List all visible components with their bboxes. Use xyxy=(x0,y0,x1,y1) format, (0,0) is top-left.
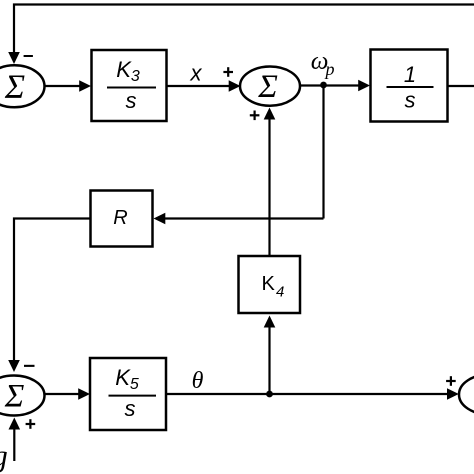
svg-text:R: R xyxy=(113,207,127,229)
wire S1 to K3 block xyxy=(45,85,81,87)
summing junction S1 xyxy=(0,65,45,107)
wire 1/s output to right edge xyxy=(448,85,474,87)
arrowhead into K3 block xyxy=(79,80,91,92)
wire S3 to K5 block xyxy=(45,393,79,395)
minus label at summer S3 xyxy=(24,365,35,367)
arrowhead into 1/s block xyxy=(358,80,370,92)
wire theta node up to K4 block xyxy=(268,327,270,394)
svg-text:Σ: Σ xyxy=(257,69,278,105)
block K5/s xyxy=(90,358,166,430)
wire omega_p node down to R line xyxy=(322,85,324,219)
arrowhead into K5 block xyxy=(78,388,90,400)
block 1/s xyxy=(371,50,448,122)
wire K4 output up to summer S2 bottom xyxy=(268,119,270,256)
arrowhead into K4 block bottom xyxy=(264,316,276,328)
node junction dot omega_p xyxy=(320,82,327,89)
minus label at summer S1 xyxy=(24,55,33,57)
svg-text:Σ: Σ xyxy=(4,69,25,106)
wire S2 to 1/s block xyxy=(300,84,359,86)
wire K3 to summer S2 xyxy=(167,85,230,87)
summing junction S3 xyxy=(0,376,45,416)
wire K5 output to summer S4 xyxy=(166,393,448,395)
svg-text:x: x xyxy=(190,61,203,86)
arrowhead into R block xyxy=(154,213,166,225)
arrowhead into summer S2 xyxy=(229,80,241,92)
svg-text:s: s xyxy=(125,396,136,421)
arrowhead into summer S2 bottom xyxy=(264,108,276,120)
svg-text:θg: θg xyxy=(0,438,8,473)
svg-text:s: s xyxy=(126,88,137,113)
plus label at summer S4 xyxy=(446,380,456,382)
wire top feedback line xyxy=(14,5,474,53)
plus label at summer S2 bottom xyxy=(250,114,260,116)
svg-text:θ: θ xyxy=(192,368,204,394)
arrowhead into summer S4 xyxy=(447,388,459,400)
svg-text:4: 4 xyxy=(276,284,284,301)
wire to R block xyxy=(165,217,324,219)
svg-text:s: s xyxy=(405,88,416,113)
node junction dot theta xyxy=(266,391,273,398)
svg-text:K: K xyxy=(262,273,276,295)
plus label at summer S2 left xyxy=(223,71,233,73)
arrowhead into summer S3 bottom xyxy=(9,418,21,430)
block K3/s xyxy=(92,50,167,121)
block K4 xyxy=(239,256,301,313)
block R xyxy=(91,191,153,247)
summing junction S2 xyxy=(240,67,300,106)
arrowhead into summer S1 top xyxy=(8,52,20,64)
svg-text:Σ: Σ xyxy=(4,379,25,415)
arrowhead into summer S3 top xyxy=(8,360,20,372)
plus label at summer S3 bottom xyxy=(26,423,36,425)
summing junction S4 partial at right edge xyxy=(459,375,474,415)
svg-text:1: 1 xyxy=(404,62,416,87)
wire input arrow into S3 bottom xyxy=(13,429,15,461)
wire R output to left and down to summer S3 xyxy=(14,219,91,361)
